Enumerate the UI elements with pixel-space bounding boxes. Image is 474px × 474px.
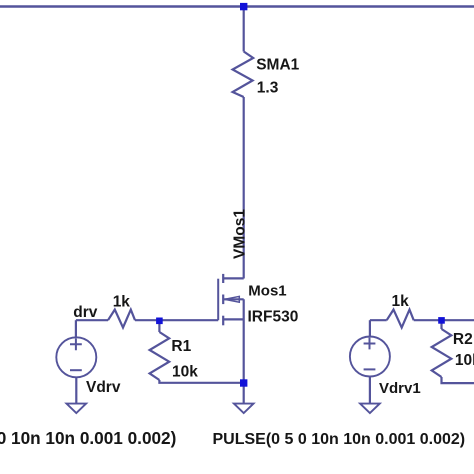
svg-text:PULSE(0 5 0 10n 10n 0.001 0.00: PULSE(0 5 0 10n 10n 0.001 0.002) — [213, 431, 466, 448]
resistor R2 top lead — [440, 320, 442, 329]
svg-text:R2: R2 — [453, 331, 473, 348]
voltage source Vdrv circle — [56, 337, 96, 377]
svg-text:10k: 10k — [172, 364, 198, 381]
wire drain vertical upper — [243, 7, 245, 52]
voltage source Vdrv1 minus sign — [364, 368, 376, 370]
wire R2 bottom to right edge — [442, 377, 474, 383]
ground under Vdrv — [67, 404, 87, 413]
transistor Q Mos1 bulk arrow head — [224, 296, 239, 302]
wire R1 bottom to source junction — [159, 380, 243, 383]
wire 1k right to junction — [414, 319, 442, 321]
resistor SMA1 — [233, 52, 254, 98]
resistor R1 top lead — [158, 320, 160, 332]
wire Vdrv minus stub — [75, 377, 77, 403]
wire Vdrv1 to 1k right — [370, 319, 387, 321]
wire 1k to junction — [135, 319, 159, 321]
junction right node — [438, 317, 445, 324]
svg-text:1k: 1k — [392, 293, 410, 310]
junction top rail — [240, 3, 247, 10]
svg-text:IRF530: IRF530 — [248, 308, 299, 325]
svg-text:Mos1: Mos1 — [248, 282, 286, 299]
wire gate from left junction — [159, 319, 218, 321]
transistor Q Mos1 channel middle segment — [222, 295, 224, 305]
svg-text:1.3: 1.3 — [257, 80, 279, 97]
transistor Q Mos1 channel bottom segment — [222, 316, 224, 326]
wire source vertical to junction — [243, 299, 245, 383]
voltage source Vdrv1 circle — [350, 337, 390, 377]
ground under mosfet source — [234, 404, 254, 413]
junction gate node — [156, 318, 163, 325]
resistor R2 zigzag — [432, 329, 452, 377]
voltage source Vdrv minus sign — [70, 369, 82, 371]
wire SMA1 to mosfet drain — [243, 97, 245, 279]
resistor 1k left zigzag — [108, 310, 135, 328]
transistor Q Mos1 drain lead — [223, 277, 244, 279]
svg-text:drv: drv — [73, 304, 98, 321]
resistor R1 zigzag — [150, 332, 170, 380]
wire drv node to 1k resistor — [76, 319, 108, 321]
transistor Q Mos1 source lead — [223, 318, 244, 320]
transistor Q Mos1 gate bar — [217, 279, 219, 321]
svg-text:SMA1: SMA1 — [256, 56, 299, 73]
svg-text:10k: 10k — [455, 352, 474, 369]
wire Vdrv plus stub — [75, 320, 77, 337]
svg-text:1k: 1k — [113, 293, 131, 310]
voltage source Vdrv1 plus sign — [364, 338, 376, 350]
junction source node — [240, 379, 247, 386]
ground under Vdrv1 — [360, 404, 380, 413]
voltage source Vdrv plus sign — [70, 338, 82, 350]
transistor Q Mos1 channel top segment — [222, 274, 224, 283]
wire Vdrv1 plus stub — [369, 320, 371, 336]
wire junction to right edge — [442, 319, 474, 321]
svg-text:Vdrv: Vdrv — [86, 379, 121, 396]
wire Vdrv1 minus stub — [369, 377, 371, 404]
svg-text:0 10n 10n 0.001 0.002): 0 10n 10n 0.001 0.002) — [0, 428, 176, 448]
wire junction to ground — [243, 383, 245, 403]
resistor 1k right zigzag — [387, 310, 414, 328]
svg-text:R1: R1 — [171, 338, 191, 355]
svg-text:Vdrv1: Vdrv1 — [379, 380, 421, 397]
transistor Q Mos1 bulk arrow line — [223, 298, 244, 300]
svg-text:VMos1: VMos1 — [232, 209, 249, 259]
wire top rail — [0, 5, 474, 7]
